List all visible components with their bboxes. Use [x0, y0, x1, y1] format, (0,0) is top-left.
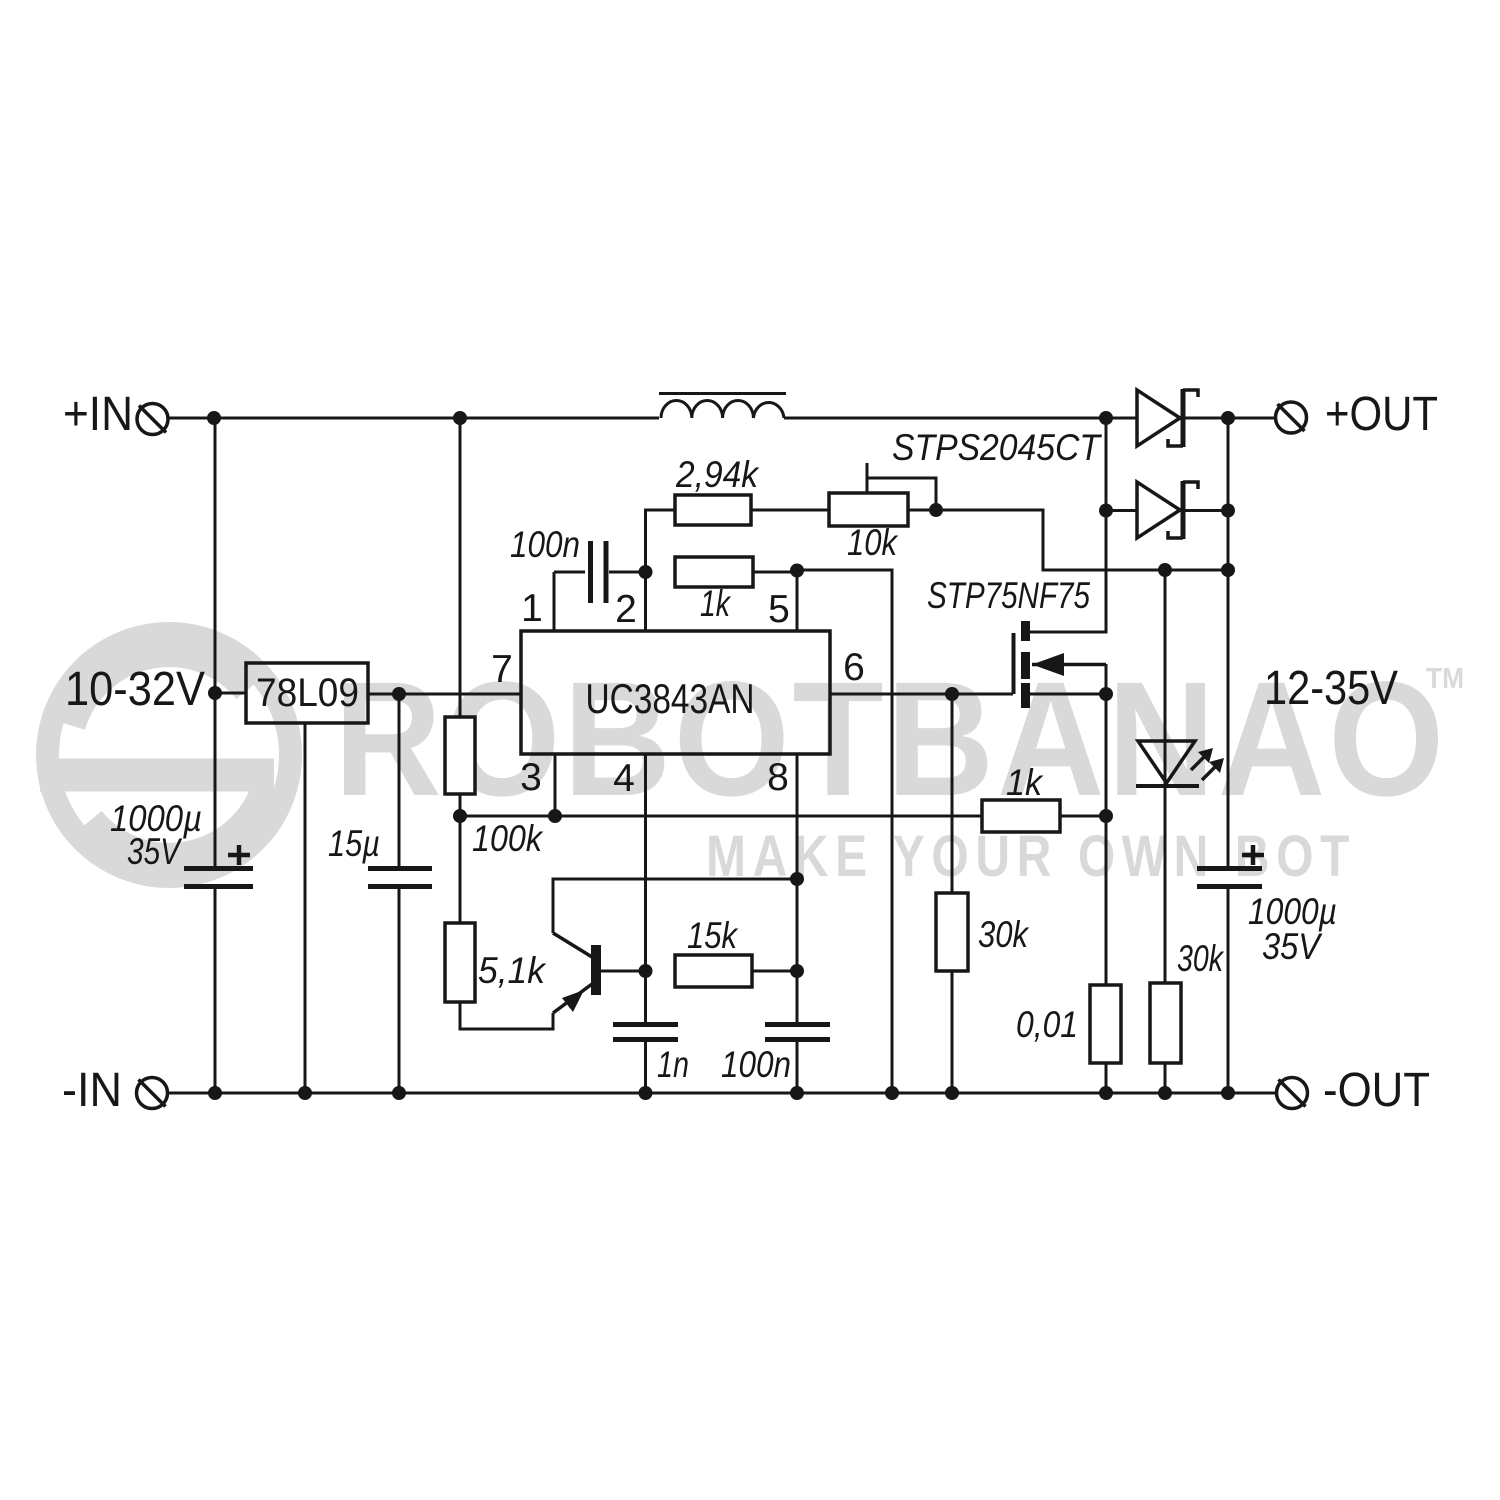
wire top rail right of inductor: [784, 417, 1137, 420]
resistor 1k gate-source: [982, 762, 1060, 832]
node dot diode2 cathode: [1221, 504, 1235, 518]
LED D3: [1136, 741, 1224, 786]
terminal +IN: [63, 388, 168, 441]
svg-text:1k: 1k: [1006, 762, 1044, 803]
wire 0,01 to bottom rail: [1105, 1063, 1108, 1093]
terminal +OUT: [1276, 388, 1439, 441]
svg-text:-IN: -IN: [62, 1064, 122, 1117]
wire diode2 cathode: [1183, 509, 1228, 512]
node dot switch node top: [1099, 411, 1113, 425]
node dot 100k top: [453, 411, 467, 425]
wire 1k top right: [753, 571, 797, 574]
svg-text:UC3843AN: UC3843AN: [586, 675, 755, 722]
svg-text:STP75NF75: STP75NF75: [927, 575, 1090, 616]
wire 10k output sense: [908, 510, 1228, 570]
wire diode2 anode: [1106, 509, 1137, 512]
node dot rail 797: [790, 1086, 804, 1100]
svg-text:0,01: 0,01: [1016, 1004, 1078, 1045]
svg-text:1n: 1n: [657, 1044, 689, 1085]
wire bottom rail: [166, 1092, 1277, 1095]
watermark logo circle: [40, 634, 291, 877]
svg-text:35V: 35V: [1262, 926, 1323, 967]
node dot 10-32V: [208, 686, 222, 700]
diode D2 schottky bottom: [1137, 481, 1198, 539]
node dot sense output rail: [1221, 563, 1235, 577]
svg-text:30k: 30k: [978, 914, 1030, 955]
wire 30k to bottom rail: [951, 971, 954, 1093]
svg-text:TM: TM: [1426, 663, 1464, 695]
wire 5,1k top: [459, 816, 462, 923]
wire LED branch: [1164, 570, 1167, 983]
node dot sense LED branch: [1158, 563, 1172, 577]
transistor Q1 PNP: [553, 933, 601, 1013]
node dot 10k wiper: [929, 503, 943, 517]
capacitor 100n bottom: [721, 1025, 830, 1086]
wire diode1 cathode to +OUT: [1183, 417, 1276, 420]
svg-text:STPS2045CT: STPS2045CT: [892, 427, 1102, 468]
resistor 15k: [675, 915, 752, 987]
resistor 30k second: [1150, 938, 1225, 1063]
resistor 0,01: [1016, 985, 1121, 1063]
node dot rail 645: [639, 1086, 653, 1100]
resistor 2,94k: [675, 454, 760, 525]
capacitor C1 1000u 35V input: [110, 798, 253, 887]
capacitor C2 1000u 35V output: [1197, 845, 1337, 967]
mosfet Q2 STP75NF75: [927, 575, 1106, 708]
wire 78L09 input: [215, 692, 246, 695]
wire pin 2 node: [609, 510, 675, 631]
wire pin 4: [644, 754, 647, 1022]
wire mosfet source line: [1030, 693, 1106, 696]
wire 10k wiper: [867, 463, 936, 510]
wire top rail left: [167, 417, 659, 420]
svg-text:12-35V: 12-35V: [1264, 662, 1398, 715]
wire base to pin4: [601, 970, 646, 973]
wire 78L09 ground pin: [304, 723, 307, 1093]
svg-text:2,94k: 2,94k: [675, 454, 760, 495]
resistor 30k first: [936, 893, 1030, 971]
svg-text:5,1k: 5,1k: [478, 950, 547, 991]
svg-text:10k: 10k: [847, 522, 899, 563]
capacitor 1n: [613, 1025, 689, 1086]
svg-text:+OUT: +OUT: [1325, 388, 1438, 441]
svg-text:5: 5: [768, 588, 790, 631]
capacitor 15u: [328, 823, 432, 887]
regulator 78L09: [246, 663, 368, 723]
wire 78L09 output to pin 7: [368, 693, 521, 696]
wire pin 6 to gate: [830, 693, 1013, 696]
svg-text:100k: 100k: [472, 818, 544, 859]
node dot rail 305: [298, 1086, 312, 1100]
wire pin6 branch to 30k: [951, 694, 954, 893]
diode D1 schottky top: [1137, 389, 1198, 447]
node dot rail 215: [208, 1086, 222, 1100]
wire switch node drain vertical: [1030, 418, 1106, 632]
wire 100k top: [459, 418, 462, 717]
node dot rail 1165: [1158, 1086, 1172, 1100]
wire output rail vertical: [1227, 418, 1230, 866]
node dot rail 892: [885, 1086, 899, 1100]
node dot rail 1228: [1221, 1086, 1235, 1100]
svg-text:35V: 35V: [127, 831, 183, 872]
svg-text:15µ: 15µ: [328, 823, 380, 864]
node dot 1k source: [1099, 809, 1113, 823]
wire 5,1k bottom to emitter: [460, 1002, 553, 1029]
wire node A horizontal (100k / pin3 / 1k): [460, 815, 982, 818]
svg-text:2: 2: [615, 588, 637, 631]
svg-text:4: 4: [613, 757, 635, 800]
wire output cap to bottom rail: [1227, 889, 1230, 1093]
resistor 5,1k: [445, 923, 547, 1002]
terminal -IN: [62, 1064, 168, 1117]
svg-text:100n: 100n: [510, 524, 580, 565]
wire input left vertical upper: [214, 418, 217, 866]
wire 15k right to pin8: [752, 970, 797, 973]
node dot rail 399: [392, 1086, 406, 1100]
node dot pin2: [639, 565, 653, 579]
resistor 1k top: [675, 557, 753, 624]
wire 2,94k to 10k: [751, 509, 829, 512]
node dot pin5: [790, 564, 804, 578]
wire 30k2 to bottom rail: [1164, 1063, 1167, 1093]
trimmer 10k: [829, 493, 908, 563]
IC U1 UC3843AN: [521, 631, 830, 754]
wire pin 8: [796, 754, 799, 1022]
terminal -OUT: [1277, 1064, 1431, 1117]
wire 1n to bottom rail: [644, 1042, 647, 1093]
wire mosfet source node vertical: [1105, 664, 1108, 985]
wire pin 3: [554, 754, 557, 816]
node dot rail 952: [945, 1086, 959, 1100]
node dot rail 1106: [1099, 1086, 1113, 1100]
svg-text:1k: 1k: [700, 583, 732, 624]
svg-text:3: 3: [520, 756, 542, 799]
node dot 78L09 out: [392, 687, 406, 701]
node dot 15k pin8: [790, 964, 804, 978]
inductor L1: [659, 394, 786, 419]
capacitor 100n pin1-2: [510, 524, 606, 603]
node dot mosfet source: [1099, 687, 1113, 701]
svg-text:30k: 30k: [1177, 938, 1225, 979]
wire 1k right end: [1060, 815, 1106, 818]
node dot diode1 cathode: [1221, 411, 1235, 425]
svg-text:78L09: 78L09: [256, 671, 359, 715]
svg-text:7: 7: [491, 648, 513, 691]
svg-text:8: 8: [767, 756, 789, 799]
svg-text:10-32V: 10-32V: [65, 663, 205, 716]
node dot base pin4: [639, 964, 653, 978]
svg-text:6: 6: [843, 646, 865, 689]
wire collector node: [553, 879, 797, 933]
wire pin 1: [554, 572, 585, 631]
node dot collector pin8: [790, 872, 804, 886]
svg-text:100n: 100n: [721, 1044, 791, 1085]
wire 100k bottom to node: [459, 794, 462, 816]
resistor 100k: [445, 717, 544, 859]
svg-text:+IN: +IN: [63, 388, 133, 441]
wire 15u branch lower: [398, 889, 401, 1093]
node dot 100k-5,1k: [453, 809, 467, 823]
node dot diode2 anode: [1099, 504, 1113, 518]
wire 15u branch upper: [398, 694, 401, 866]
wire input left vertical lower: [214, 889, 217, 1093]
wire 100n2 to bottom rail: [796, 1042, 799, 1093]
node dot pin3: [548, 809, 562, 823]
node dot pin6: [945, 687, 959, 701]
node dot +IN rail: [207, 411, 221, 425]
svg-text:15k: 15k: [687, 915, 739, 956]
svg-text:-OUT: -OUT: [1323, 1064, 1430, 1117]
svg-text:1: 1: [521, 587, 543, 630]
wire pin 5 node: [797, 570, 892, 1093]
